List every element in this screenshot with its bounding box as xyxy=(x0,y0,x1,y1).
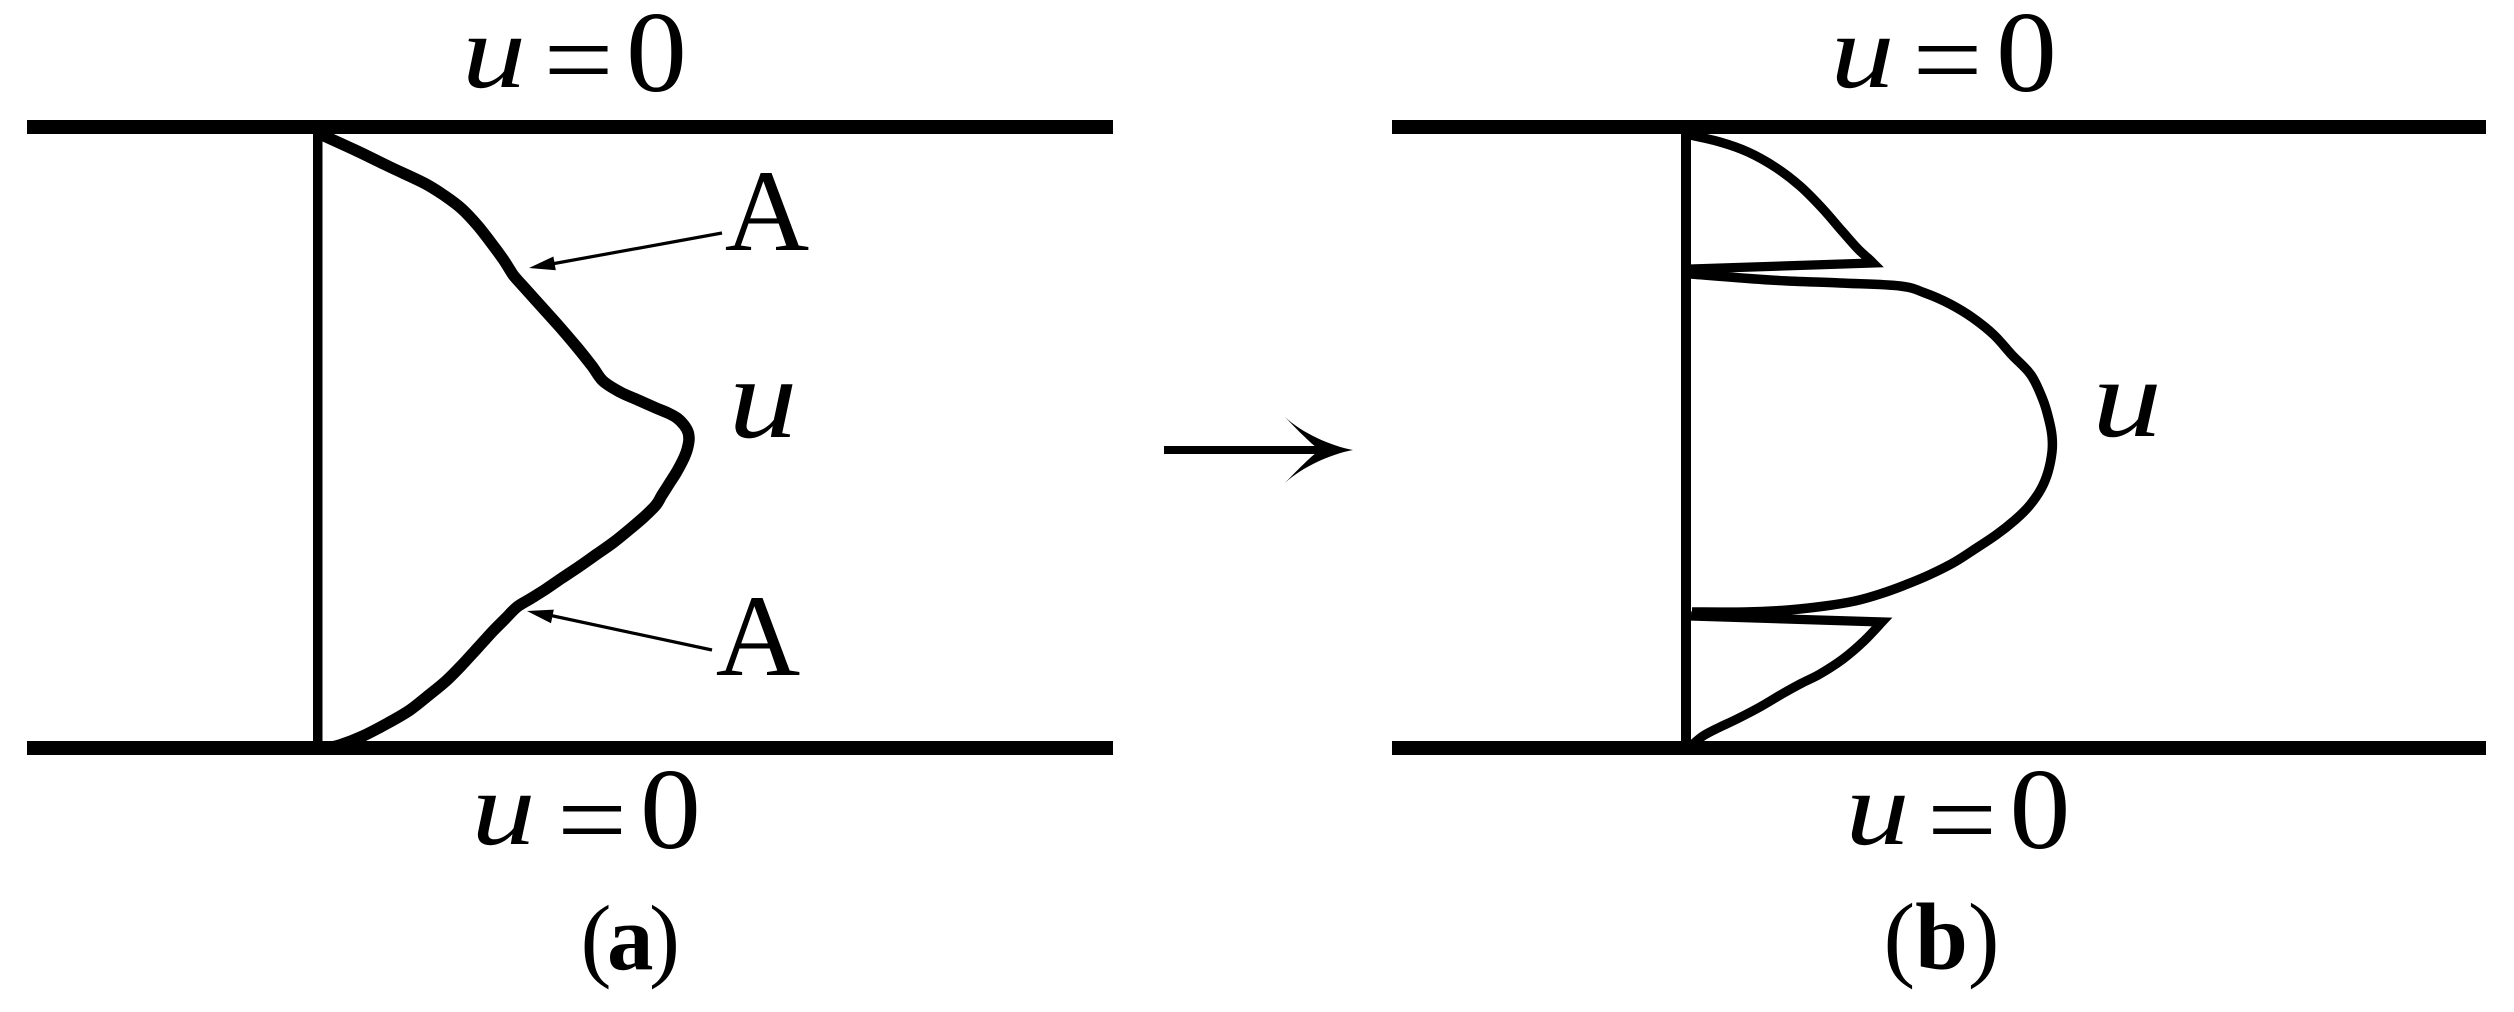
svg-text:(a): (a) xyxy=(581,887,676,990)
svg-text:0: 0 xyxy=(2010,745,2071,874)
svg-text:u: u xyxy=(462,0,526,110)
svg-text:=: = xyxy=(1927,759,1997,881)
svg-text:u: u xyxy=(1830,0,1894,110)
svg-text:=: = xyxy=(557,759,627,881)
svg-text:=: = xyxy=(543,0,613,121)
svg-text:0: 0 xyxy=(1996,0,2057,116)
svg-text:A: A xyxy=(725,147,810,276)
svg-text:u: u xyxy=(471,752,535,868)
svg-text:u: u xyxy=(1845,752,1909,868)
svg-text:A: A xyxy=(716,572,801,701)
svg-text:u: u xyxy=(728,336,797,463)
svg-text:u: u xyxy=(2092,337,2162,461)
svg-text:=: = xyxy=(1912,0,1982,121)
svg-text:0: 0 xyxy=(640,745,701,874)
svg-text:(b): (b) xyxy=(1883,884,1999,990)
svg-text:0: 0 xyxy=(626,0,687,116)
